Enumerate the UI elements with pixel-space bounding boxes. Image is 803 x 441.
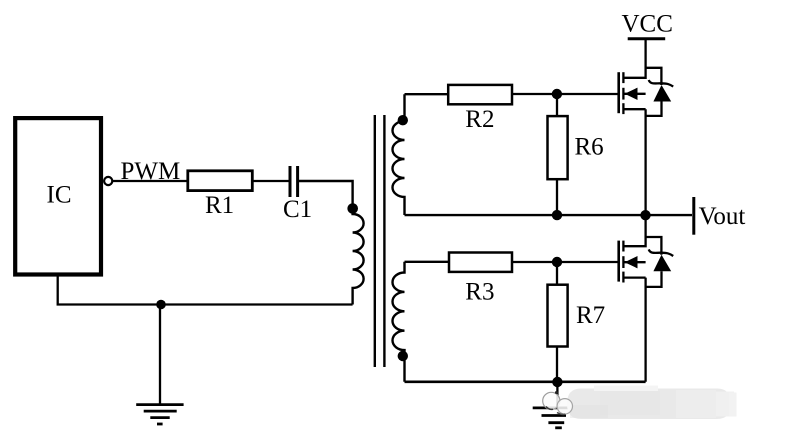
transistor Q1 (top MOSFET): [619, 39, 646, 114]
ground (right earth symbol): [533, 406, 570, 409]
wire L2 top to R2: [405, 93, 449, 95]
resistor R6: [548, 116, 568, 179]
svg-text:R2: R2: [465, 106, 494, 133]
wire R7 bottom to rail: [556, 346, 558, 382]
power VCC terminal bar: [628, 37, 666, 40]
wire ground stub right: [556, 382, 558, 407]
node junction dot R6/rail: [552, 210, 562, 220]
Q1 drain lead: [623, 39, 645, 78]
svg-text:IC: IC: [47, 181, 72, 208]
secondary L2 dot (phase): [398, 115, 408, 125]
svg-text:R1: R1: [205, 192, 234, 219]
wire R1 to C1: [253, 180, 289, 182]
transformer secondary winding L2 (top): [393, 94, 405, 215]
resistor R7: [548, 285, 568, 347]
wire Q1 source down to Vout rail: [644, 109, 646, 215]
svg-text:C1: C1: [283, 196, 312, 223]
Q1 gate bar: [617, 72, 620, 113]
Q1 body lead: [623, 93, 645, 95]
wire node to R6 top: [556, 94, 558, 116]
Q2 body arrow: [625, 256, 638, 268]
capacitor C1: [289, 166, 292, 197]
node junction dot R2/R6/gate: [552, 89, 562, 99]
wire R3 to gate node 2: [512, 261, 618, 263]
node junction dot left ground: [156, 300, 166, 310]
wire Q2 source down to ground rail: [644, 278, 646, 382]
svg-text:R6: R6: [575, 134, 604, 161]
svg-text:R7: R7: [576, 302, 605, 329]
wire top rail (L2 bottom to Vout): [405, 214, 693, 216]
svg-text:R3: R3: [465, 279, 494, 306]
wire R6 bottom to rail: [556, 179, 558, 215]
node junction dot Vout: [640, 210, 650, 220]
transistor Q2 (bottom MOSFET): [619, 215, 646, 282]
svg-text:VCC: VCC: [622, 10, 673, 37]
Q2 channel segments: [622, 241, 624, 252]
ground (left earth symbol): [136, 403, 183, 406]
transformer secondary winding L3 (bottom): [392, 262, 404, 382]
Q1 source lead: [623, 108, 645, 110]
Q1 body arrow: [625, 88, 638, 100]
wire L3 top to R3: [405, 261, 449, 263]
Q1 channel segments: [622, 72, 624, 83]
Q2 source lead: [623, 276, 645, 278]
resistor R2: [448, 85, 512, 104]
wire R2 to gate node: [512, 93, 618, 95]
wire bottom rail: [405, 380, 646, 383]
Q2 body lead: [623, 261, 645, 263]
resistor R1: [188, 171, 253, 191]
wire pin to R1: [112, 180, 187, 182]
node junction dot R7/ground rail: [552, 377, 562, 387]
node Vout terminal bar: [692, 197, 695, 235]
node PWM : open pin terminal circle: [104, 177, 112, 185]
transformer core lines: [374, 115, 376, 367]
Q2 gate bar: [617, 241, 620, 282]
wire IC bottom pin: [58, 275, 353, 305]
op-amp U1 : IC box: [15, 118, 101, 274]
secondary L3 dot (phase): [398, 351, 408, 361]
watermark residual marks: [546, 407, 553, 410]
resistor R3: [449, 253, 512, 272]
wire ground stub left: [159, 305, 161, 405]
watermark blur circles: [543, 392, 560, 409]
node junction dot R3/R7/gate: [552, 257, 562, 267]
watermark blob: [567, 389, 731, 420]
wire node to R7 top: [556, 262, 558, 285]
wire C1 to transformer primary top: [298, 181, 353, 206]
svg-text:Vout: Vout: [699, 203, 746, 230]
diode D1 (Q1 body diode): [646, 68, 674, 116]
transformer primary winding L1: [353, 206, 364, 305]
Q2 drain lead: [623, 215, 645, 246]
diode D2 (Q2 body diode): [646, 237, 674, 287]
primary winding dot (phase): [347, 203, 358, 214]
